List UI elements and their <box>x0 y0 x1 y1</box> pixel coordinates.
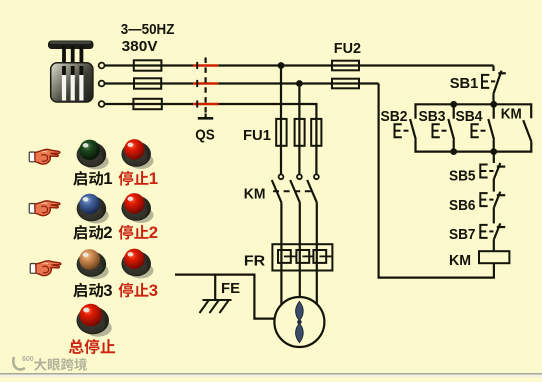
terminal L2 <box>99 81 105 87</box>
wires FR to motor <box>281 271 316 306</box>
wire SB6 to SB7 <box>493 208 495 224</box>
svg-text:KM: KM <box>501 105 522 122</box>
wires KM to FR <box>281 202 316 244</box>
button SB4 (NO) <box>488 104 494 151</box>
pushbutton 启动1 <box>77 140 109 170</box>
pushbutton 停止1 <box>121 139 153 169</box>
ground tap <box>214 275 216 301</box>
svg-text:SB2: SB2 <box>381 108 408 125</box>
QS linkage dashed line <box>205 58 207 114</box>
SB2 actuator <box>395 124 409 137</box>
SB3 actuator <box>433 124 447 137</box>
wire L1 down to FU1 <box>280 66 282 175</box>
svg-text:SB3: SB3 <box>419 108 446 125</box>
svg-text:FU2: FU2 <box>334 40 361 57</box>
fuse FU2 upper <box>332 61 359 71</box>
svg-text:1: 1 <box>103 169 112 188</box>
button SB7 (NC) <box>494 223 505 239</box>
wire L1 <box>105 64 194 66</box>
svg-text:2: 2 <box>103 223 112 242</box>
button SB3 (NO) <box>448 104 454 151</box>
junction bottom rail / SB3 <box>450 148 457 155</box>
pointer hand 1 <box>29 149 60 164</box>
SB5 actuator <box>480 165 493 178</box>
ground wire FE <box>175 275 275 319</box>
motor propeller <box>296 301 304 342</box>
wire L1 to FU2 <box>218 64 493 66</box>
contact KM auxiliary (NO) <box>523 120 531 141</box>
svg-text:3: 3 <box>103 281 112 300</box>
ground symbol <box>200 300 232 313</box>
svg-text:380V: 380V <box>122 38 158 55</box>
svg-text:FU1: FU1 <box>243 127 271 144</box>
label 停止1 <box>119 169 158 188</box>
wire L2 to FU2 <box>218 82 378 84</box>
KM linkage dashed <box>273 190 311 192</box>
top rail <box>416 104 532 118</box>
button SB6 (NC) <box>494 192 505 208</box>
label 总停止 <box>69 339 115 354</box>
pointer hand 3 <box>30 261 61 276</box>
pushbutton 停止3 <box>121 249 153 279</box>
svg-text:600: 600 <box>22 356 34 363</box>
wire SB7 to KM coil <box>493 239 495 251</box>
label 停止2 <box>119 223 158 242</box>
SB7 actuator <box>480 225 493 238</box>
svg-text:QS: QS <box>195 127 215 144</box>
watermark logo <box>13 356 87 371</box>
SB4 actuator <box>472 124 486 137</box>
coil KM <box>479 251 509 263</box>
button SB2 (NO) <box>410 119 416 140</box>
button SB5 (NC) <box>494 163 505 179</box>
svg-text:SB4: SB4 <box>456 108 484 125</box>
contactor KM main contact circles <box>279 174 319 179</box>
contactor KM main blades <box>272 180 317 202</box>
motor M <box>274 297 324 347</box>
fuse L3 <box>133 99 161 109</box>
label 启动3 <box>73 281 112 300</box>
svg-text:SB6: SB6 <box>449 197 476 214</box>
QS fixed contact ticks <box>196 62 198 108</box>
SB1 actuator <box>482 75 495 88</box>
pointer hand 2 <box>29 201 60 216</box>
svg-text:3—50HZ: 3—50HZ <box>121 21 175 38</box>
three-phase power plug <box>48 41 94 103</box>
label 启动1 <box>73 169 112 188</box>
fuse L1 <box>134 60 162 70</box>
switch QS blades (red) <box>193 66 218 105</box>
junction top rail / SB1-SB4 <box>490 101 497 108</box>
pushbutton 启动3 <box>77 249 109 279</box>
pushbutton 总停止 <box>76 304 111 337</box>
svg-text:SB7: SB7 <box>449 226 476 243</box>
svg-text:FE: FE <box>221 280 240 297</box>
svg-text:1: 1 <box>149 169 158 188</box>
svg-text:KM: KM <box>449 252 471 269</box>
svg-text:SB1: SB1 <box>450 75 479 92</box>
junction bottom rail / SB4 <box>490 148 497 155</box>
svg-text:2: 2 <box>149 223 158 242</box>
FR heater elements <box>280 244 282 270</box>
svg-text:FR: FR <box>244 252 265 269</box>
button SB1 (NC) <box>494 66 506 105</box>
bottom rail <box>416 140 532 152</box>
svg-text:SB5: SB5 <box>449 168 476 185</box>
svg-text:KM: KM <box>244 186 266 203</box>
pushbutton 停止2 <box>121 193 153 223</box>
label 停止3 <box>119 281 158 300</box>
pushbutton 启动2 <box>77 194 109 224</box>
wire L2 <box>105 82 194 84</box>
terminal L1 <box>99 63 105 69</box>
wire L3 to FU1 <box>218 104 316 174</box>
wire left control rail <box>379 84 494 278</box>
terminal L3 <box>99 101 105 107</box>
fuse FU2 lower <box>332 79 359 89</box>
fuse FU1 elements <box>276 119 286 146</box>
junction L2/FU1 <box>296 80 303 87</box>
wire SB5 to SB6 <box>493 179 495 192</box>
wire L3 <box>105 103 194 105</box>
wire SB4 to SB5 <box>493 152 495 163</box>
fuse L2 <box>134 78 161 88</box>
label 启动2 <box>73 223 112 242</box>
thermal relay FR box <box>272 244 332 270</box>
FR linkage dashes <box>291 255 333 257</box>
svg-text:3: 3 <box>149 281 158 300</box>
QS handle bar <box>205 114 207 118</box>
junction L1/FU1 <box>278 62 285 69</box>
wire L2 down to FU1 <box>298 84 300 175</box>
junction top rail / SB3 <box>450 101 457 108</box>
SB6 actuator <box>480 193 493 206</box>
